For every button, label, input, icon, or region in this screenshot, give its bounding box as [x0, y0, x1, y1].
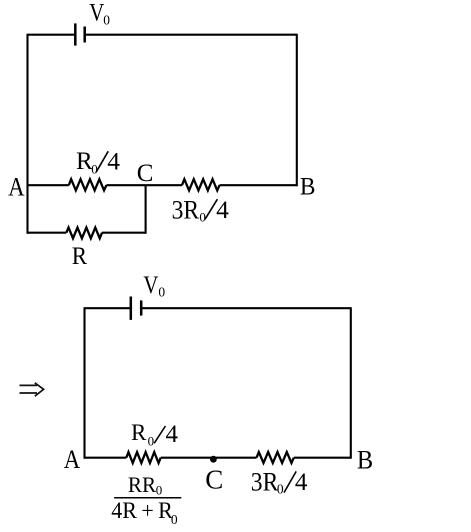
wire resistor to B (circuit 2) [294, 457, 351, 459]
resistor R0/4 zigzag (circuit 2) [126, 452, 160, 463]
svg-text:0: 0 [199, 209, 206, 224]
svg-text:0: 0 [171, 512, 178, 527]
svg-text:0: 0 [91, 161, 98, 176]
wire bottom branch right [102, 232, 146, 234]
svg-text:0: 0 [103, 12, 110, 27]
wire top-left segment (circuit 2) [85, 307, 130, 309]
resistor R zigzag (circuit 1) [66, 228, 102, 239]
wire node C segment [106, 184, 182, 186]
svg-text:A: A [8, 172, 25, 201]
svg-text:R: R [131, 420, 147, 445]
fraction bar [114, 497, 181, 499]
resistor 3R0/4 zigzag (circuit 2) [257, 452, 294, 463]
node C junction dot (circuit 2) [210, 456, 217, 463]
svg-text:0: 0 [277, 481, 284, 496]
svg-text:0: 0 [156, 482, 163, 497]
svg-text:4R + R: 4R + R [111, 498, 173, 523]
implies arrow [20, 383, 44, 396]
battery V0 short plate (circuit 1) [83, 27, 86, 43]
svg-text:4: 4 [166, 421, 179, 448]
svg-text:C: C [137, 160, 154, 187]
battery V0 long plate (circuit 2) [130, 297, 133, 320]
wire C vertical drop [145, 185, 147, 234]
svg-text:B: B [300, 174, 316, 201]
wire top-left segment (circuit 1) [28, 34, 75, 36]
svg-text:V: V [143, 272, 158, 299]
wire left vertical (circuit 1) [26, 34, 28, 234]
svg-text:4: 4 [107, 147, 120, 176]
svg-text:4: 4 [216, 195, 229, 224]
wire bottom branch left [28, 232, 67, 234]
wire left vertical (circuit 2) [83, 307, 85, 459]
svg-text:3R: 3R [251, 468, 279, 497]
wire resistor to node C (circuit 2) [161, 457, 257, 459]
svg-text:0: 0 [148, 433, 155, 448]
wire right vertical (circuit 2) [350, 307, 352, 459]
resistor R0/4 zigzag (circuit 1) [69, 179, 107, 190]
svg-text:V: V [89, 0, 104, 26]
svg-text:4: 4 [295, 469, 308, 496]
wire top-right segment (circuit 2) [142, 307, 351, 309]
wire A to resistor R0/4 [28, 184, 69, 186]
wire right vertical (circuit 1) [296, 34, 298, 187]
svg-text:3R: 3R [172, 195, 200, 224]
svg-text:C: C [205, 465, 223, 495]
svg-text:B: B [357, 445, 373, 474]
svg-text:R: R [72, 243, 88, 270]
wire A to resistor R0/4 (circuit 2) [85, 457, 127, 459]
battery V0 long plate (circuit 1) [74, 23, 77, 45]
svg-text:RR: RR [128, 472, 156, 497]
wire resistor to B [220, 184, 297, 186]
wire top-right segment (circuit 1) [86, 34, 297, 36]
resistor 3R0/4 zigzag (circuit 1) [182, 179, 220, 190]
svg-text:0: 0 [158, 285, 165, 300]
battery V0 short plate (circuit 2) [140, 300, 143, 315]
svg-text:A: A [64, 445, 81, 474]
